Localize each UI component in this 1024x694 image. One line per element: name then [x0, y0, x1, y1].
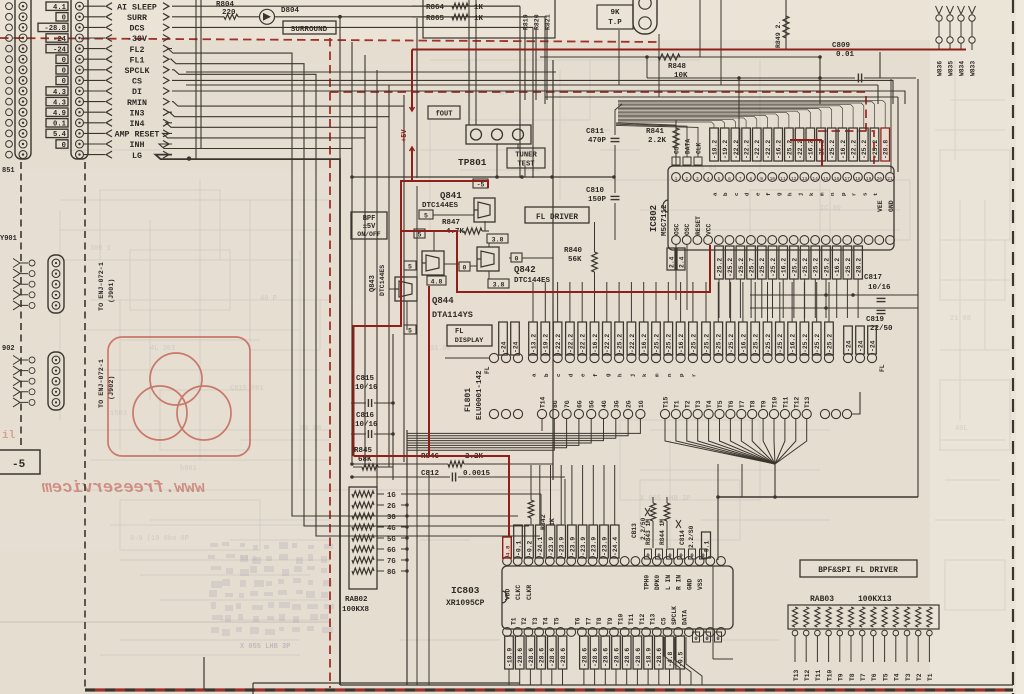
svg-text:CLKR: CLKR [526, 585, 533, 600]
svg-text:R865: R865 [426, 15, 445, 23]
svg-text:-16.2: -16.2 [592, 334, 599, 353]
svg-text:R840: R840 [564, 247, 583, 255]
svg-text:4.8: 4.8 [431, 279, 443, 286]
svg-text:5: 5 [418, 232, 422, 239]
svg-text:-24: -24 [53, 36, 67, 44]
svg-text:g: g [776, 192, 783, 196]
svg-text:-16.2: -16.2 [808, 140, 815, 159]
svg-text:40L: 40L [955, 425, 968, 433]
svg-text:10/16: 10/16 [868, 284, 891, 292]
svg-text:-5: -5 [12, 459, 26, 471]
svg-text:2.4: 2.4 [668, 256, 675, 268]
svg-text:-25.7: -25.7 [749, 258, 756, 277]
svg-text:-28.6: -28.6 [549, 648, 556, 667]
svg-text:T2: T2 [916, 673, 923, 681]
svg-text:R848: R848 [668, 63, 687, 71]
svg-text:TEST: TEST [517, 161, 535, 169]
svg-text:TPH0: TPH0 [644, 575, 651, 590]
svg-text:RAB03: RAB03 [810, 595, 834, 604]
svg-text:DCS: DCS [130, 25, 145, 34]
svg-text:DATA: DATA [682, 610, 689, 625]
svg-text:-23.9: -23.9 [601, 537, 608, 556]
svg-text:T13: T13 [804, 396, 811, 408]
svg-text:FL1: FL1 [130, 56, 145, 65]
svg-text:18: 18 [855, 176, 861, 182]
svg-text:T14: T14 [540, 396, 547, 408]
svg-text:-25.2: -25.2 [727, 258, 734, 277]
svg-text:LG: LG [132, 152, 142, 161]
svg-text:220: 220 [222, 9, 236, 17]
svg-text:-28.6: -28.6 [539, 648, 546, 667]
svg-text:10/16: 10/16 [355, 421, 378, 429]
svg-text:-28.6: -28.6 [528, 648, 535, 667]
svg-text:t: t [872, 193, 879, 196]
svg-text:j: j [797, 193, 804, 196]
svg-text:T11: T11 [815, 669, 822, 681]
svg-text:W833: W833 [970, 61, 977, 76]
svg-text:r: r [851, 192, 858, 196]
svg-text:DTC144ES: DTC144ES [379, 265, 386, 296]
svg-text:AMP RESET: AMP RESET [115, 131, 160, 140]
svg-text:6: 6 [728, 176, 731, 182]
svg-text:-5.1: -5.1 [703, 540, 710, 556]
svg-text:11: 11 [780, 176, 786, 182]
svg-text:R820: R820 [534, 14, 541, 30]
svg-text:T1: T1 [673, 400, 680, 408]
svg-text:-0.1: -0.1 [515, 540, 522, 556]
svg-text:IC 80: IC 80 [820, 205, 841, 213]
svg-text:4G: 4G [601, 400, 608, 408]
svg-text:T.P: T.P [608, 19, 622, 27]
svg-text:SPCLK: SPCLK [671, 606, 678, 625]
svg-text:7: 7 [739, 176, 742, 182]
svg-text:m: m [654, 373, 661, 377]
svg-text:5G: 5G [589, 400, 596, 408]
svg-text:CB13: CB13 [631, 523, 638, 538]
svg-text:-25.2: -25.2 [791, 258, 798, 277]
svg-text:DTC144ES: DTC144ES [422, 202, 459, 210]
svg-text:1G: 1G [387, 492, 396, 500]
svg-text:C811: C811 [586, 128, 605, 136]
svg-text:7G: 7G [564, 400, 571, 408]
svg-text:40 P: 40 P [260, 295, 277, 303]
svg-text:5: 5 [408, 328, 412, 335]
svg-text:8: 8 [750, 176, 753, 182]
svg-text:-28.6: -28.6 [581, 648, 588, 667]
svg-text:-24: -24 [53, 46, 67, 54]
svg-text:5.4: 5.4 [53, 131, 67, 139]
svg-text:-25.2: -25.2 [653, 334, 660, 353]
svg-text:0: 0 [62, 78, 66, 86]
svg-text:14: 14 [812, 176, 818, 182]
svg-text:e: e [580, 373, 587, 377]
svg-text:R841: R841 [646, 128, 665, 136]
svg-text:CLK: CLK [696, 142, 703, 154]
svg-text:1G: 1G [638, 400, 645, 408]
svg-text:-24: -24 [512, 341, 519, 353]
svg-text:T5: T5 [717, 400, 724, 408]
svg-text:-25.2: -25.2 [777, 334, 784, 353]
svg-text:-25.2: -25.2 [738, 258, 745, 277]
svg-text:C815 081: C815 081 [230, 385, 264, 393]
svg-text:X 055 LHB 3P: X 055 LHB 3P [240, 643, 290, 651]
svg-text:T12: T12 [793, 396, 800, 408]
svg-text:-22.2: -22.2 [851, 140, 858, 159]
svg-text:Q843: Q843 [369, 275, 377, 292]
svg-text:b: b [722, 192, 729, 196]
svg-text:GND: GND [888, 200, 895, 212]
svg-text:DISPLAY: DISPLAY [455, 337, 484, 345]
svg-text:2: 2 [685, 176, 688, 182]
svg-text:-28.6: -28.6 [603, 648, 610, 667]
svg-text:C819: C819 [866, 316, 885, 324]
svg-text:-18.9: -18.9 [506, 648, 513, 667]
svg-text:19: 19 [866, 176, 872, 182]
svg-text:R849 2.: R849 2. [775, 21, 782, 48]
svg-text:-25.2: -25.2 [703, 334, 710, 353]
svg-text:4: 4 [707, 176, 710, 182]
svg-text:IC802: IC802 [649, 205, 659, 232]
svg-text:GND: GND [686, 578, 693, 590]
svg-text:-16.2: -16.2 [790, 334, 797, 353]
svg-text:g: g [604, 373, 611, 377]
svg-text:0: 0 [716, 635, 719, 642]
svg-text:-25.2: -25.2 [770, 258, 777, 277]
svg-text:T2: T2 [521, 617, 528, 625]
svg-text:e: e [754, 192, 761, 196]
svg-text:0.1: 0.1 [53, 121, 67, 129]
svg-text:-28.6: -28.6 [592, 648, 599, 667]
svg-text:6G: 6G [387, 547, 396, 555]
svg-text:3.8: 3.8 [492, 237, 504, 244]
svg-text:Q841: Q841 [440, 191, 462, 201]
svg-text:BPF&SPI FL DRIVER: BPF&SPI FL DRIVER [818, 567, 898, 575]
svg-text:k: k [808, 192, 815, 196]
svg-text:-25.2: -25.2 [716, 258, 723, 277]
svg-text:C814: C814 [679, 530, 686, 545]
svg-text:3G: 3G [613, 400, 620, 408]
svg-text:-30V: -30V [127, 35, 147, 44]
svg-text:-25.2: -25.2 [802, 258, 809, 277]
svg-text:-28.6: -28.6 [613, 648, 620, 667]
svg-text:-24: -24 [500, 341, 507, 353]
svg-text:T13: T13 [793, 669, 800, 681]
svg-text:-22.2: -22.2 [754, 140, 761, 159]
svg-text:15: 15 [823, 176, 829, 182]
svg-text:-28.8: -28.8 [883, 140, 890, 159]
svg-text:150P: 150P [588, 196, 607, 204]
svg-text:-22.2: -22.2 [733, 140, 740, 159]
svg-text:TUNER: TUNER [515, 152, 537, 160]
svg-text:851: 851 [2, 167, 15, 175]
svg-text:-16.2: -16.2 [678, 334, 685, 353]
svg-text:(J901): (J901) [108, 279, 116, 303]
svg-text:p: p [840, 192, 847, 196]
svg-text:T2: T2 [684, 400, 691, 408]
svg-text:56K: 56K [568, 256, 582, 264]
svg-text:4.3: 4.3 [53, 89, 66, 97]
svg-text:9: 9 [760, 176, 763, 182]
svg-text:FL: FL [455, 328, 463, 336]
svg-text:-24: -24 [857, 340, 864, 352]
svg-text:C817: C817 [864, 274, 882, 282]
svg-text:2.2/50: 2.2/50 [640, 517, 647, 540]
svg-text:T11: T11 [782, 396, 789, 408]
svg-text:4.8: 4.8 [504, 545, 511, 556]
svg-text:CLKC: CLKC [515, 585, 522, 600]
svg-text:FL DRIVER: FL DRIVER [536, 214, 578, 222]
svg-text:0: 0 [463, 265, 467, 272]
svg-text:RAB02: RAB02 [345, 596, 368, 604]
svg-text:il: il [2, 430, 16, 442]
svg-text:R IN: R IN [676, 575, 683, 590]
svg-text:-28.8: -28.8 [44, 25, 66, 33]
svg-text:(J902): (J902) [108, 376, 116, 400]
svg-text:SURR: SURR [127, 14, 147, 23]
svg-text:b: b [543, 373, 550, 377]
svg-text:-23.9: -23.9 [548, 537, 555, 556]
svg-text:SURROUND: SURROUND [291, 26, 328, 34]
svg-text:DI: DI [132, 88, 142, 97]
svg-text:D804: D804 [281, 7, 300, 15]
svg-text:-22.2: -22.2 [744, 140, 751, 159]
svg-text:T7: T7 [860, 673, 867, 681]
svg-text:T12: T12 [639, 613, 646, 625]
svg-text:-25.2: -25.2 [826, 334, 833, 353]
svg-text:0.01: 0.01 [836, 51, 855, 59]
svg-text:C816: C816 [356, 412, 375, 420]
svg-text:T1: T1 [927, 673, 934, 681]
svg-text:n: n [666, 373, 673, 377]
svg-text:T8: T8 [849, 673, 856, 681]
svg-text:C5: C5 [674, 146, 681, 154]
svg-text:4.3: 4.3 [53, 99, 66, 107]
svg-text:T3: T3 [695, 400, 702, 408]
svg-text:T7: T7 [739, 400, 746, 408]
svg-text:-25.2: -25.2 [829, 140, 836, 159]
svg-text:-25.2: -25.2 [690, 334, 697, 353]
svg-text:c: c [733, 192, 740, 196]
svg-text:T9: T9 [761, 400, 768, 408]
svg-text:0: 0 [515, 256, 519, 263]
svg-text:R844 1M: R844 1M [659, 519, 666, 545]
svg-text:ELU0001-142: ELU0001-142 [476, 370, 484, 420]
svg-text:m: m [819, 192, 826, 196]
svg-text:100KX8: 100KX8 [342, 606, 370, 614]
svg-text:4.9: 4.9 [53, 110, 66, 118]
svg-text:-19.2: -19.2 [722, 140, 729, 159]
svg-text:T15: T15 [663, 396, 670, 408]
svg-text:470P: 470P [588, 137, 607, 145]
svg-text:FL801: FL801 [464, 388, 473, 412]
svg-text:20: 20 [877, 176, 883, 182]
svg-text:T5: T5 [882, 673, 889, 681]
svg-text:-22.2: -22.2 [629, 334, 636, 353]
svg-text:T4: T4 [894, 673, 901, 681]
svg-text:5G: 5G [387, 536, 396, 544]
svg-text:h: h [786, 192, 793, 196]
svg-text:5: 5 [717, 176, 720, 182]
svg-text:AI SLEEP: AI SLEEP [117, 3, 157, 12]
svg-text:-24.1: -24.1 [537, 537, 544, 556]
svg-text:-25.2: -25.2 [765, 334, 772, 353]
svg-text:IC803: IC803 [451, 585, 480, 596]
svg-text:7G: 7G [387, 558, 396, 566]
svg-text:3.8: 3.8 [493, 282, 505, 289]
svg-text:c: c [555, 373, 562, 377]
svg-text:2.4: 2.4 [678, 256, 685, 268]
svg-text:T10: T10 [772, 396, 779, 408]
svg-text:T8: T8 [596, 617, 603, 625]
svg-text:3: 3 [696, 176, 699, 182]
svg-text:-28.6: -28.6 [635, 648, 642, 667]
svg-text:-25.2: -25.2 [861, 140, 868, 159]
svg-text:h: h [617, 373, 624, 377]
svg-text:305 1: 305 1 [90, 245, 111, 253]
svg-text:-24: -24 [845, 340, 852, 352]
svg-text:r: r [690, 373, 697, 377]
svg-text:0: 0 [62, 57, 66, 65]
svg-text:DTA114YS: DTA114YS [432, 310, 473, 320]
svg-text:C5: C5 [660, 617, 667, 625]
svg-text:-5: -5 [477, 182, 485, 189]
svg-text:-22.2: -22.2 [555, 334, 562, 353]
svg-text:-23.9: -23.9 [569, 537, 576, 556]
svg-text:L IN: L IN [665, 575, 672, 590]
svg-text:3G: 3G [387, 514, 396, 522]
svg-text:W836: W836 [937, 61, 944, 76]
svg-text:ON/OFF: ON/OFF [357, 231, 381, 238]
svg-text:T6: T6 [575, 617, 582, 625]
svg-text:12: 12 [791, 176, 797, 182]
svg-text:IN4: IN4 [130, 120, 145, 129]
svg-text:FL: FL [879, 364, 886, 372]
svg-text:-22.2: -22.2 [567, 334, 574, 353]
svg-text:-25.2: -25.2 [728, 334, 735, 353]
svg-text:RMIN: RMIN [127, 99, 147, 108]
svg-text:13: 13 [802, 176, 808, 182]
svg-text:DATA: DATA [685, 139, 692, 154]
svg-text:RESET: RESET [695, 216, 702, 235]
svg-text:T5: T5 [553, 617, 560, 625]
svg-text:2G: 2G [626, 400, 633, 408]
svg-text:-22.2: -22.2 [604, 334, 611, 353]
svg-text:Y901: Y901 [0, 235, 17, 243]
svg-text:C815: C815 [356, 375, 375, 383]
svg-text:-25.2: -25.2 [753, 334, 760, 353]
svg-text:17: 17 [844, 176, 850, 182]
svg-text:T8: T8 [750, 400, 757, 408]
svg-text:8-9 (19 8km 0P: 8-9 (19 8km 0P [130, 535, 189, 543]
svg-text:-25.2: -25.2 [666, 334, 673, 353]
svg-text:-23.9: -23.9 [580, 537, 587, 556]
svg-text:-0.2: -0.2 [526, 540, 533, 556]
svg-text:-23.9: -23.9 [591, 537, 598, 556]
svg-text:-28.6: -28.6 [624, 648, 631, 667]
svg-text:-18.2: -18.2 [711, 140, 718, 159]
svg-text:1503: 1503 [110, 410, 127, 418]
svg-text:T9: T9 [838, 673, 845, 681]
svg-text:-25.2: -25.2 [845, 258, 852, 277]
svg-text:d: d [744, 192, 751, 196]
svg-text:T6: T6 [871, 673, 878, 681]
svg-text:-25.2: -25.2 [802, 334, 809, 353]
svg-text:W835: W835 [948, 61, 955, 76]
svg-text:0: 0 [694, 635, 697, 642]
svg-text:VCC: VCC [706, 223, 713, 235]
svg-text:a: a [531, 373, 538, 377]
svg-text:T9: T9 [607, 617, 614, 625]
svg-text:Q844: Q844 [432, 296, 454, 306]
svg-text:OSC: OSC [674, 223, 681, 235]
svg-text:R847: R847 [442, 219, 460, 227]
svg-text:-25.2: -25.2 [617, 334, 624, 353]
svg-text:-22.2: -22.2 [765, 140, 772, 159]
svg-text:5: 5 [408, 264, 412, 271]
svg-text:-16.2: -16.2 [776, 140, 783, 159]
svg-text:-25.2: -25.2 [813, 258, 820, 277]
svg-text:d: d [567, 373, 574, 377]
svg-text:-28.2: -28.2 [856, 258, 863, 277]
svg-text:f: f [765, 192, 772, 196]
svg-text:T3: T3 [905, 673, 912, 681]
svg-text:1K: 1K [474, 15, 484, 23]
svg-text:+5V: +5V [401, 129, 409, 142]
svg-text:-16.2: -16.2 [834, 258, 841, 277]
svg-text:-25.2: -25.2 [716, 334, 723, 353]
svg-text:100KX13: 100KX13 [858, 595, 892, 604]
svg-text:T4: T4 [543, 617, 550, 625]
svg-text:4.1: 4.1 [53, 4, 67, 12]
svg-text:-22.2: -22.2 [580, 334, 587, 353]
svg-text:-16.2: -16.2 [840, 140, 847, 159]
svg-text:IN3: IN3 [130, 109, 145, 118]
svg-text:-25.2: -25.2 [872, 140, 879, 159]
svg-text:6G: 6G [576, 400, 583, 408]
svg-text:b081: b081 [180, 465, 197, 473]
svg-text:fOUT: fOUT [436, 111, 453, 119]
svg-text:TO ENJ-072-1: TO ENJ-072-1 [98, 359, 106, 408]
svg-text:-25.2: -25.2 [823, 258, 830, 277]
svg-text:T10: T10 [618, 613, 625, 625]
svg-text:j: j [629, 374, 636, 377]
svg-text:T3: T3 [532, 617, 539, 625]
svg-text:-24: -24 [869, 340, 876, 352]
svg-text:n: n [829, 192, 836, 196]
svg-text:TO ENJ-072-1: TO ENJ-072-1 [98, 262, 106, 311]
svg-text:2G: 2G [387, 503, 396, 511]
svg-text:9K: 9K [610, 9, 620, 17]
svg-text:10: 10 [770, 176, 776, 182]
svg-text:-24.4: -24.4 [612, 537, 619, 556]
svg-text:www.freeservicem: www.freeservicem [41, 479, 205, 498]
svg-text:-28.6: -28.6 [517, 648, 524, 667]
svg-text:s: s [861, 192, 868, 196]
svg-text:DPK0: DPK0 [654, 575, 661, 590]
svg-text:T1: T1 [511, 617, 518, 625]
svg-text:0: 0 [62, 15, 66, 23]
svg-text:-23.9: -23.9 [559, 537, 566, 556]
svg-text:2.2K: 2.2K [648, 137, 667, 145]
svg-text:BPF: BPF [363, 215, 376, 223]
svg-text:4L 303: 4L 303 [150, 345, 175, 353]
svg-text:1K: 1K [474, 4, 484, 12]
svg-text:T11: T11 [628, 613, 635, 625]
svg-text:8G: 8G [552, 400, 559, 408]
svg-text:8G: 8G [387, 569, 396, 577]
svg-text:TP801: TP801 [458, 157, 487, 168]
svg-text:M5C7112: M5C7112 [661, 204, 669, 236]
